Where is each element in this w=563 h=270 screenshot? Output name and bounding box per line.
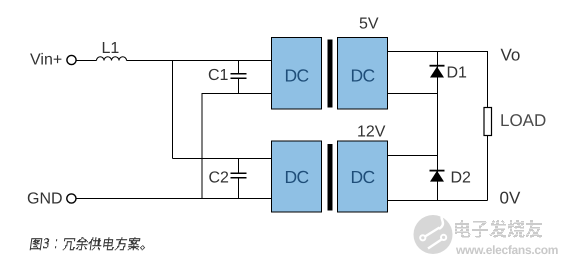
- watermark text 电子发烧友: [455, 220, 542, 238]
- wire load bottom vertical: [487, 136, 489, 201]
- svg-text:C2: C2: [209, 169, 230, 186]
- wire Vin+ to L1: [77, 60, 97, 62]
- svg-text:LOAD: LOAD: [500, 111, 546, 130]
- svg-text:Vin+: Vin+: [30, 52, 62, 69]
- wire 5V return pin: [388, 93, 438, 95]
- capacitor C1: [231, 61, 247, 94]
- caption 图3：冗余供电方案。: [30, 237, 147, 250]
- transformer T2 core bar: [328, 144, 333, 211]
- DC-DC converter U1 primary box: [272, 38, 322, 110]
- wire 12V output pin: [388, 155, 438, 157]
- DC-DC converter U1 secondary box: [338, 38, 388, 110]
- svg-text:DC: DC: [285, 65, 309, 85]
- wire top rail Vin: [127, 60, 273, 62]
- svg-text:12V: 12V: [357, 124, 386, 141]
- terminal Vin+: [67, 55, 76, 64]
- watermark logo circle: [414, 214, 453, 255]
- wire C1 bottom rail: [202, 93, 273, 95]
- svg-text:D1: D1: [447, 64, 468, 81]
- svg-text:www.elecfans.com: www.elecfans.com: [455, 243, 558, 257]
- wire ground vertical: [201, 93, 203, 198]
- wire 0V rail: [388, 200, 488, 202]
- svg-text:C1: C1: [208, 67, 229, 84]
- svg-text:GND: GND: [27, 191, 63, 208]
- capacitor C2: [231, 159, 247, 199]
- svg-text:DC: DC: [351, 167, 375, 187]
- transformer T1 core bar: [328, 40, 333, 108]
- svg-text:DC: DC: [285, 167, 309, 187]
- resistor LOAD: [484, 108, 492, 136]
- svg-text:Vo: Vo: [501, 46, 521, 65]
- diode D1: [430, 65, 445, 78]
- svg-text:L1: L1: [102, 40, 120, 57]
- inductor L1: [97, 57, 127, 61]
- DC-DC converter U2 secondary box: [338, 141, 388, 212]
- diode D2: [430, 170, 445, 182]
- wire Vin rail to lower converter: [173, 158, 273, 160]
- svg-text:D2: D2: [451, 170, 472, 187]
- svg-text:0V: 0V: [500, 189, 521, 208]
- wire 5V output to Vo corner: [388, 51, 488, 53]
- wire Vin vertical drop: [172, 61, 174, 159]
- wire GND rail: [77, 198, 273, 200]
- svg-text:5V: 5V: [359, 16, 379, 33]
- wire diode rail: [437, 51, 439, 201]
- DC-DC converter U2 primary box: [272, 141, 322, 212]
- terminal GND: [67, 194, 76, 203]
- wire Vo corner down to load: [487, 51, 489, 108]
- svg-text:DC: DC: [351, 65, 375, 85]
